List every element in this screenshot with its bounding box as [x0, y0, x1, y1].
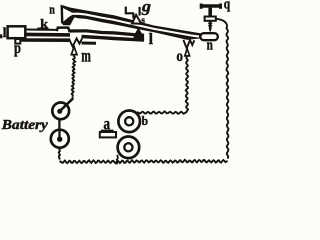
- svg-text:b: b: [142, 113, 148, 128]
- svg-text:p: p: [14, 40, 21, 57]
- svg-text:Battery: Battery: [1, 117, 48, 132]
- svg-text:l: l: [149, 31, 154, 48]
- svg-text:g: g: [141, 0, 151, 16]
- svg-text:q: q: [224, 0, 230, 13]
- svg-text:n: n: [49, 2, 55, 17]
- svg-text:s: s: [141, 16, 145, 26]
- svg-text:a: a: [103, 114, 110, 133]
- svg-text:m: m: [81, 45, 91, 65]
- svg-text:n: n: [207, 38, 214, 54]
- svg-text:l: l: [3, 26, 7, 41]
- svg-text:k: k: [40, 17, 48, 31]
- svg-text:o: o: [176, 48, 183, 65]
